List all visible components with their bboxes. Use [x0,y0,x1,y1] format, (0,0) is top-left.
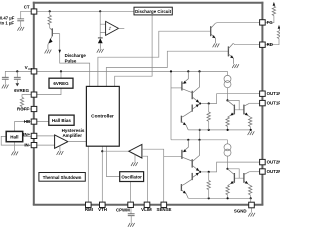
ground below Q-FG [213,44,220,48]
pin RD [260,42,266,47]
pin Vcc [31,69,37,74]
svg-text:OUT2N: OUT2N [267,160,280,165]
wire: Q-RD collector to RD pin [233,43,259,44]
svg-text:Hall Bias: Hall Bias [52,118,72,123]
ground below Hall [11,152,18,156]
box: 6VREG [49,78,73,88]
svg-text:Thermal Shutdown: Thermal Shutdown [43,175,82,180]
wire: controller to discharge circuit box [115,15,152,86]
node: long vertical on Vcc line [170,70,172,72]
ground below C-CT [17,27,24,31]
ground below C-PWM [128,223,135,227]
svg-text:Amplifier: Amplifier [62,133,82,138]
svg-text:FG: FG [267,20,274,25]
wire: upper bus to lower rail [199,130,201,140]
pin CT [31,9,37,14]
pin FG [260,20,266,25]
svg-text:SENSE: SENSE [157,207,172,212]
ground below Q-RD [232,64,239,68]
svg-text:IN-: IN- [24,143,30,148]
arrow: FG pull-up to supply [273,2,276,6]
wire: CPWM pin to external capacitor [130,208,132,214]
svg-text:CT: CT [24,5,30,10]
svg-text:Controller: Controller [91,114,114,120]
ground at upper bus right end [248,131,255,135]
wire: A1 output stub [119,27,125,29]
op-amp A2 (hysteresis amplifier) [55,135,68,148]
wire: Hall bottom terminal to ground [14,142,16,152]
transistor Q-FG [211,23,216,43]
svg-text:VLIM: VLIM [141,207,152,212]
wire: 6VREG box bottom to 6VREG pin [31,88,61,94]
box: Hall Bias [49,115,74,125]
svg-text:SGND: SGND [234,208,247,213]
svg-text:to 1 µF: to 1 µF [0,21,14,26]
node: upper bus to lower rail [199,129,201,131]
wire: RD external pull-up [265,39,279,45]
wire: IN- to hysteresis amp [37,144,55,146]
box: Hall element [6,131,23,141]
wire: A2 ground stem [59,146,61,151]
wire: HB pin to Hall bias / Hall element [15,122,49,132]
svg-text:Discharge: Discharge [65,53,87,58]
ground below C1 [2,85,9,89]
svg-text:ROFF: ROFF [17,107,29,112]
wire: 6VREG pin to external resistor [22,95,31,98]
arrow: RD pull-up to supply [278,25,281,29]
arrow: discharge pulse direction [58,50,61,54]
wire: comparator branch from CT net [99,11,101,37]
wire: A3 input to SENSE pin [142,149,164,202]
resistor R-discharge [49,11,51,15]
IC boundary bottom rail [33,204,264,206]
pin 6VREG [31,92,37,97]
box: Controller [86,86,119,146]
pin VTH [100,202,106,207]
wire: Q-FG collector to FG pin [215,22,259,25]
svg-text:Pulse: Pulse [65,58,77,63]
capacitor C-PWM (external) [128,214,135,216]
wire: discharge pulse to controller [60,34,90,87]
svg-text:OUT1P: OUT1P [267,101,280,106]
IC boundary right rail [261,2,263,205]
pin VLIM [144,202,150,207]
wire: Hall left terminal wrap to IN- [1,136,31,145]
wire: Hall to IN+ [23,135,32,137]
pin CPWM [128,202,134,207]
ground below Q-discharge [45,50,52,54]
ground below SGND [248,213,255,217]
pin IN+ [31,133,37,138]
node at C2 [16,70,18,72]
wire: CT net (pin to discharge circuit) [37,10,134,12]
wire: controller to RD transistor base [106,51,228,86]
svg-text:Discharge Circuit: Discharge Circuit [135,9,172,14]
hysteresis glyph inside A1 [109,27,111,30]
pin SENSE [161,202,167,207]
svg-text:RD: RD [267,42,273,47]
resistor R-FG (pull-up) [272,6,275,15]
pin OUT2P [260,169,266,174]
node: Vcc to 6VREG box [60,70,62,72]
pin OUT1P [260,100,266,105]
pin HB [31,119,37,124]
ground triangle below C2 [16,83,20,86]
wire: lower Q1 base to sense line [164,155,182,157]
node on CT net at comparator branch [99,10,101,12]
resistor R-RD (pull-up) [277,29,280,38]
svg-text:Hall: Hall [10,134,18,139]
wire: oscillator to CPWM pin [130,182,132,203]
node on CT net [49,10,51,12]
wire: Vcc line (pin to output stage) [31,70,227,72]
transistor Q-RD [228,43,233,64]
pin OUT2N [260,159,266,164]
svg-text:RMI: RMI [85,207,93,212]
diode D1 (reference) [98,38,103,49]
wire: SGND pin to ground [251,208,253,213]
wire: Vcc line to 6VREG box top [60,71,62,78]
svg-text:OUT2P: OUT2P [267,169,280,174]
wire: A3 input to VLIM pin [142,156,148,202]
wire: controller to VTH pin [101,146,103,202]
wire: controller to FG transistor base [98,31,211,86]
capacitor C2 (Vcc) [16,71,18,77]
node: VTH / comparator junction [101,150,103,152]
capacitor C1 (Vcc) [2,77,9,79]
transistor Q-discharge [48,28,60,49]
wire: lower local rail [171,139,228,141]
wire: long bias vertical [170,71,172,139]
svg-text:HB: HB [24,119,30,124]
wire: R-OFF to ROFF pin [22,107,31,109]
wire: IN+ to hysteresis amp [37,135,55,137]
svg-text:Oscillator: Oscillator [121,175,142,180]
IC boundary top rail [33,2,264,4]
svg-text:IN+: IN+ [23,132,30,137]
wire: controller to oscillator [107,146,120,176]
output driver block 2 (OUT2) [181,139,259,200]
wire: upper Q1 base to bias vertical [171,87,182,89]
svg-text:VTH: VTH [98,207,107,212]
svg-text:6VREG: 6VREG [53,81,69,86]
svg-text:CPWM: CPWM [116,208,130,213]
box: Oscillator [120,172,144,182]
svg-text:6VREG: 6VREG [14,88,29,93]
svg-text:OUT1N: OUT1N [267,91,280,96]
wire: A3 output to VTH line [102,150,129,152]
wire: CT pin to external capacitor [21,11,32,19]
op-amp A3 (PWM comparator) [129,144,142,158]
wire: FG external pull-up [265,16,274,23]
pin RMI [86,202,92,207]
capacitor C-CT (0.47uF to 1uF) [17,19,24,21]
op-amp A1 (CT comparator) [106,21,119,35]
resistor R-OFF (external) [20,97,23,106]
wire: comparator input stubs [100,24,105,32]
box: Thermal Shutdown [39,173,85,182]
output driver block 1 (OUT1) [181,70,259,131]
wire: A3 ground stem [134,155,136,162]
pin ROFF [31,106,37,111]
box: Discharge Circuit [134,7,172,15]
wire: lower bus to SGND pin [250,198,252,202]
pin OUT1N [260,91,266,96]
ground below D1 [97,49,104,53]
pin IN- [31,143,37,148]
wire: Vcc pin to external capacitors [5,71,31,77]
ground below A3 [131,162,138,166]
ground below A2 [57,151,64,155]
pin SGND [249,202,255,208]
wire: controller to RMI pin [87,146,89,202]
wire: A2 output to controller [68,141,87,143]
IC boundary left rail [33,2,35,205]
